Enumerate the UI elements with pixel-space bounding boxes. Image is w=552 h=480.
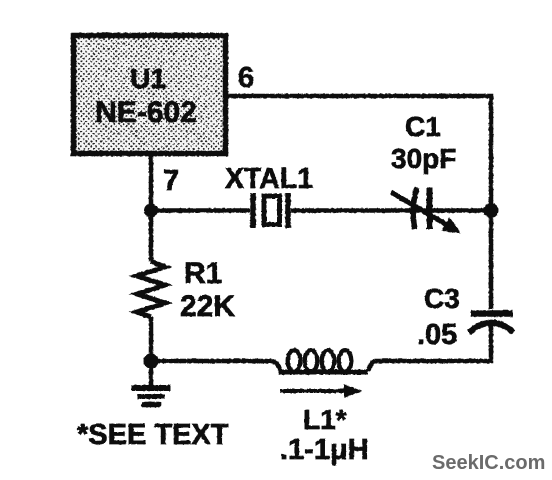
svg-text:C3: C3 [424, 283, 460, 314]
svg-text:30pF: 30pF [391, 143, 456, 174]
svg-text:SeekIC.com: SeekIC.com [432, 452, 545, 474]
svg-text:*SEE TEXT: *SEE TEXT [77, 419, 229, 451]
svg-text:C1: C1 [405, 111, 441, 142]
svg-text:R1: R1 [184, 257, 222, 290]
svg-text:U1: U1 [130, 63, 166, 94]
svg-text:L1*: L1* [303, 404, 347, 435]
svg-text:.05: .05 [417, 319, 457, 351]
svg-text:22K: 22K [180, 290, 235, 323]
svg-text:7: 7 [163, 165, 179, 197]
svg-text:.1-1μH: .1-1μH [280, 434, 369, 466]
svg-text:6: 6 [238, 62, 254, 94]
svg-text:XTAL1: XTAL1 [225, 163, 313, 195]
svg-text:NE-602: NE-602 [95, 96, 197, 129]
